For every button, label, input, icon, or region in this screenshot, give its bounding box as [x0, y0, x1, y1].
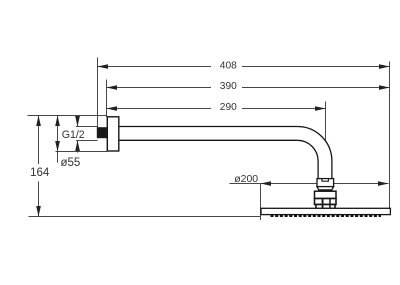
elbow inner arc — [297, 140, 318, 178]
shower head disc — [261, 208, 390, 214]
extension line left of 390/290 (flange face) — [106, 80, 108, 118]
dimension line 290 — [107, 108, 212, 110]
svg-text:290: 290 — [220, 102, 237, 113]
svg-text:390: 390 — [220, 81, 237, 92]
dimension line o200 — [230, 183, 389, 185]
arrowhead o55 down — [55, 141, 60, 152]
arrowhead o200 left — [261, 181, 272, 186]
arrowhead 408 left — [98, 64, 109, 69]
svg-text:ø200: ø200 — [234, 173, 258, 185]
arrowhead 390 left — [107, 85, 118, 90]
thread block G1/2 — [97, 127, 107, 138]
arrowhead 164 up — [36, 116, 41, 127]
arrowhead 290 right — [315, 106, 326, 111]
arrowhead 408 right — [379, 64, 390, 69]
extension line right (head edge) — [389, 62, 391, 209]
svg-text:ø55: ø55 — [60, 157, 80, 169]
top extension line at flange top (for 164 / o55) — [28, 115, 108, 117]
shower arm top edge — [119, 126, 298, 128]
svg-text:G1/2: G1/2 — [62, 129, 85, 141]
svg-text:164: 164 — [30, 167, 50, 179]
dimension line o55 — [57, 116, 59, 163]
svg-text:408: 408 — [220, 61, 237, 72]
extension line at pipe centre for 290 — [325, 102, 327, 141]
arrowhead 290 left — [107, 106, 118, 111]
knurled ring upper — [315, 199, 337, 205]
arrowhead G1/2 up (below pipe) — [75, 141, 80, 152]
arrowhead G1/2 down (above pipe) — [75, 116, 80, 127]
dimension line 390 — [107, 87, 212, 89]
arrowhead 164 down — [36, 206, 41, 217]
dimension line 164 — [38, 116, 40, 165]
collar notch — [322, 179, 328, 182]
shower arm bottom edge — [119, 139, 298, 141]
dimension line 408 — [98, 66, 212, 68]
connector collar — [317, 179, 334, 187]
dimension G1/2 lower stub — [77, 141, 79, 153]
wall flange — [107, 117, 119, 151]
extension line at pipe bottom (for G1/2) — [76, 140, 98, 142]
extension line at pipe top (for G1/2) — [76, 126, 98, 128]
ball joint nut — [315, 191, 337, 198]
extension line left of head disc (for o200) — [260, 184, 262, 221]
taper ring — [317, 187, 334, 190]
bottom extension line at spray face (for 164) — [29, 216, 262, 218]
elbow outer arc — [297, 127, 332, 179]
arrowhead 390 right — [379, 85, 390, 90]
extension line left of 408 (wall line) — [97, 58, 99, 128]
extension line at flange bottom (for o55) — [56, 151, 108, 153]
arrowhead o55 up — [55, 116, 60, 127]
dimension G1/2 upper stub — [77, 116, 79, 127]
spray nozzles — [271, 215, 382, 217]
arrowhead o200 right — [378, 181, 389, 186]
knurled ring lower — [316, 205, 335, 209]
